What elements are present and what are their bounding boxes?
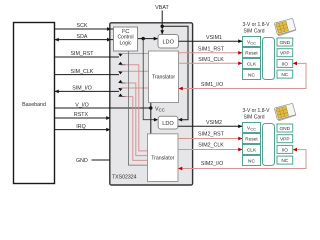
svg-text:VCC: VCC bbox=[247, 126, 256, 132]
svg-text:Reset: Reset bbox=[245, 137, 258, 143]
svg-text:VCC: VCC bbox=[155, 106, 165, 112]
svg-text:3-V or 1.8-V: 3-V or 1.8-V bbox=[243, 22, 271, 28]
svg-text:I/O: I/O bbox=[282, 61, 289, 67]
svg-text:VPP: VPP bbox=[280, 51, 290, 57]
svg-text:SIM Card: SIM Card bbox=[243, 114, 264, 120]
svg-text:GND: GND bbox=[76, 158, 88, 164]
svg-text:NC: NC bbox=[281, 72, 288, 78]
svg-text:GND: GND bbox=[279, 40, 290, 46]
svg-text:SDA: SDA bbox=[77, 34, 88, 40]
svg-text:SIM Card: SIM Card bbox=[243, 28, 264, 34]
svg-text:CLK: CLK bbox=[247, 62, 257, 68]
svg-text:3-V or 1.8-V: 3-V or 1.8-V bbox=[243, 108, 271, 114]
svg-text:I/O: I/O bbox=[282, 147, 289, 153]
svg-text:SIM2_RST: SIM2_RST bbox=[198, 132, 225, 138]
svg-text:Logic: Logic bbox=[120, 40, 132, 46]
svg-text:NC: NC bbox=[248, 73, 255, 79]
svg-text:TXS02324: TXS02324 bbox=[112, 175, 137, 181]
svg-text:VSIM1: VSIM1 bbox=[206, 35, 222, 41]
svg-text:NC: NC bbox=[281, 158, 288, 164]
svg-text:NC: NC bbox=[248, 159, 255, 165]
svg-text:Baseband: Baseband bbox=[22, 102, 46, 108]
svg-text:SIM1_RST: SIM1_RST bbox=[198, 47, 225, 53]
svg-text:SIM_RST: SIM_RST bbox=[71, 51, 95, 57]
svg-text:RSTX: RSTX bbox=[74, 112, 89, 118]
svg-text:IRQ: IRQ bbox=[76, 124, 85, 130]
svg-text:SIM2_CLK: SIM2_CLK bbox=[198, 143, 224, 149]
svg-text:Translator: Translator bbox=[152, 75, 175, 81]
svg-text:GND: GND bbox=[279, 126, 290, 132]
svg-text:LDO: LDO bbox=[162, 121, 174, 127]
svg-text:SIM_CLK: SIM_CLK bbox=[71, 69, 94, 75]
svg-text:SIM_I/O: SIM_I/O bbox=[72, 86, 91, 92]
svg-text:V_I/O: V_I/O bbox=[75, 103, 89, 109]
svg-text:CLK: CLK bbox=[247, 148, 257, 154]
svg-text:VPP: VPP bbox=[280, 137, 290, 143]
svg-text:SIM1_CLK: SIM1_CLK bbox=[198, 57, 224, 63]
svg-text:SIM1_I/O: SIM1_I/O bbox=[201, 82, 223, 88]
svg-text:VCC: VCC bbox=[247, 40, 256, 46]
svg-text:SIM2_I/O: SIM2_I/O bbox=[201, 161, 223, 167]
svg-text:SCK: SCK bbox=[77, 23, 88, 29]
svg-text:Reset: Reset bbox=[245, 51, 258, 57]
svg-text:Translator: Translator bbox=[151, 156, 174, 162]
svg-text:LDO: LDO bbox=[162, 39, 174, 45]
svg-text:VSIM2: VSIM2 bbox=[206, 120, 222, 126]
svg-text:VBAT: VBAT bbox=[155, 5, 169, 11]
